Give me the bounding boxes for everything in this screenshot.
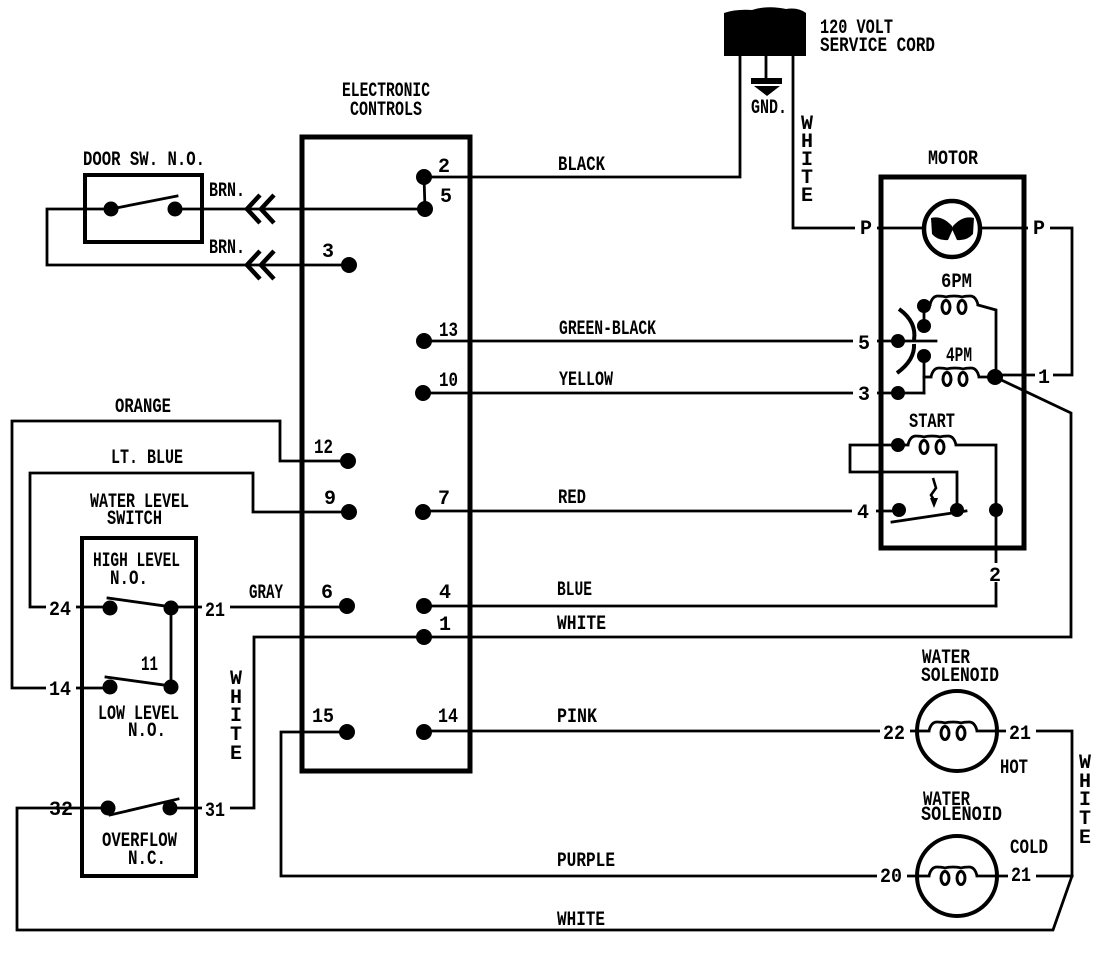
door switch blade: [111, 196, 177, 209]
cold solenoid coil: [918, 867, 996, 885]
label 1 (motor): [1035, 367, 1053, 390]
ground GND stem: [765, 56, 768, 80]
wire RED: pin 7 to motor 4: [423, 510, 899, 513]
label 21 (cold): [1008, 864, 1036, 888]
pin 5: [417, 201, 433, 217]
hot water solenoid circle: [917, 691, 997, 771]
motor pin 5 contact: [891, 334, 905, 348]
svg-text:E: E: [801, 185, 813, 208]
wire WHITE service: plug to motor P: [793, 56, 881, 228]
label WATER SOLENOID hot: [921, 647, 999, 688]
wire BLACK: controls pin 2 to plug: [424, 56, 740, 177]
svg-text:N.C.: N.C.: [128, 848, 166, 871]
svg-text:N.O.: N.O.: [110, 568, 148, 591]
wire BRN. lower: door switch to pin 3: [47, 209, 349, 265]
pin 2: [416, 169, 432, 185]
svg-text:5: 5: [858, 333, 870, 356]
label WHITE (service cord, vertical): [801, 113, 813, 208]
wire A-B link: [923, 306, 926, 326]
door switch contact right: [168, 202, 183, 217]
overflow contact right (31): [163, 801, 178, 816]
connector chevrons upper: [247, 195, 274, 223]
label 14 (water level): [46, 679, 76, 702]
label 20: [877, 865, 907, 889]
water level switch box: [82, 538, 196, 876]
electronic controls box: [302, 137, 470, 771]
label WHITE vertical left: [230, 668, 242, 766]
pin 15: [339, 724, 355, 740]
label 3 (motor): [853, 384, 877, 407]
motor protector circle: [924, 201, 980, 257]
svg-text:P: P: [860, 218, 872, 241]
label 4 (motor): [852, 501, 876, 525]
label 5 (motor): [853, 332, 877, 356]
pin 6: [339, 598, 355, 614]
label 24: [46, 599, 76, 622]
pin 9: [341, 504, 357, 520]
svg-text:9: 9: [324, 488, 336, 511]
svg-text:3: 3: [322, 241, 334, 264]
svg-text:14: 14: [438, 706, 458, 729]
wire YELLOW: pin 10 to motor 3: [423, 392, 924, 395]
svg-text:10: 10: [439, 370, 458, 393]
wire 6PM right side down: [978, 305, 996, 377]
label BRN. lower: [206, 237, 248, 260]
label OVERFLOW N.C.: [102, 830, 177, 871]
svg-text:GND.: GND.: [751, 97, 787, 120]
wire WHITE bottom: overflow 32 to cold solenoid 21: [17, 808, 1072, 930]
high level blade: [108, 598, 172, 607]
svg-text:6: 6: [321, 582, 333, 605]
svg-text:BLUE: BLUE: [557, 579, 592, 602]
low level contact right: [164, 680, 179, 695]
wire start coil right and down to 2: [956, 445, 996, 606]
pin 3: [341, 257, 357, 273]
wire WHITE: pin 1 left to overflow 31: [170, 637, 424, 808]
label 21 (water level): [202, 600, 230, 623]
svg-text:E: E: [230, 743, 242, 766]
centrifugal contact C: [917, 349, 931, 363]
svg-text:CONTROLS: CONTROLS: [350, 99, 422, 122]
label LOW LEVEL N.O.: [98, 703, 179, 743]
motor pin 3 contact: [891, 386, 905, 400]
svg-text:BRN.: BRN.: [209, 180, 245, 203]
start switch blade: [892, 511, 966, 522]
wire start loop to switch: [850, 445, 957, 510]
wire 6PM entry: [924, 305, 930, 306]
svg-text:1: 1: [1038, 367, 1050, 390]
pin 13: [416, 333, 432, 349]
motor protector bowtie: [931, 217, 974, 240]
pin 4: [416, 598, 432, 614]
svg-text:11: 11: [141, 654, 158, 677]
svg-text:14: 14: [49, 679, 71, 702]
svg-text:31: 31: [205, 800, 225, 823]
wire PURPLE: pin 15 to cold solenoid 20: [281, 732, 918, 876]
label P left: [855, 218, 877, 241]
svg-text:SOLENOID: SOLENOID: [921, 665, 999, 688]
120V service cord plug: [724, 7, 806, 56]
start switch contact left (4): [892, 503, 906, 517]
svg-text:2: 2: [438, 156, 450, 179]
svg-text:3: 3: [858, 384, 870, 407]
label WHITE vertical right: [1079, 752, 1091, 850]
svg-text:1: 1: [439, 614, 451, 637]
pin 14: [416, 724, 432, 740]
svg-text:4: 4: [439, 582, 451, 605]
svg-text:21: 21: [205, 600, 225, 623]
wire WHITE: pin 1 right to motor junction 1: [424, 377, 1071, 637]
start winding contact: [891, 438, 905, 452]
wire P internal right: [980, 227, 1024, 230]
svg-text:GREEN-BLACK: GREEN-BLACK: [559, 318, 656, 341]
svg-text:MOTOR: MOTOR: [928, 148, 978, 171]
svg-text:21: 21: [1011, 865, 1031, 888]
start winding coil: [908, 436, 956, 454]
pin 12: [340, 453, 356, 469]
connector chevrons lower: [247, 251, 274, 279]
wire LT. BLUE: pin 9 to water level switch 24: [30, 473, 349, 607]
svg-text:YELLOW: YELLOW: [559, 369, 613, 392]
svg-text:SERVICE CORD: SERVICE CORD: [820, 35, 935, 58]
svg-text:20: 20: [880, 866, 902, 889]
label WATER LEVEL SWITCH: [90, 491, 189, 531]
centrifugal switch arcs: [897, 309, 914, 373]
junction node 2: [989, 503, 1003, 517]
centrifugal contact A: [917, 299, 931, 313]
svg-text:SOLENOID: SOLENOID: [921, 804, 1002, 827]
start switch actuator arrow: [930, 478, 938, 508]
pin 7: [415, 504, 431, 520]
wire 4PM branch: [924, 376, 931, 379]
door switch contact left: [104, 202, 119, 217]
svg-text:22: 22: [883, 723, 905, 746]
high level contact right (21): [164, 601, 179, 616]
svg-text:BLACK: BLACK: [558, 154, 605, 177]
centrifugal contact B: [917, 319, 931, 333]
svg-text:PURPLE: PURPLE: [557, 850, 615, 873]
svg-text:LT. BLUE: LT. BLUE: [111, 447, 183, 470]
overflow contact left (32): [101, 801, 116, 816]
start switch contact right: [950, 503, 964, 517]
svg-text:2: 2: [989, 565, 1001, 588]
junction node 1: [987, 369, 1003, 385]
wire GRAY: water level 21 to pin 6: [171, 606, 347, 609]
low level blade: [106, 677, 171, 686]
svg-text:START: START: [909, 411, 955, 434]
wire high-low link (11): [170, 608, 173, 687]
svg-text:21: 21: [1009, 723, 1031, 746]
svg-text:P: P: [1033, 218, 1045, 241]
label 31: [202, 800, 230, 823]
wire C down to pin3 line: [923, 356, 926, 393]
svg-text:6PM: 6PM: [941, 271, 972, 294]
svg-text:DOOR SW. N.O.: DOOR SW. N.O.: [83, 149, 205, 172]
svg-text:12: 12: [314, 437, 333, 460]
label BRN. upper: [206, 180, 248, 203]
ground symbol: [751, 78, 782, 96]
svg-text:GRAY: GRAY: [249, 582, 283, 605]
wire start coil entry: [898, 444, 908, 447]
high level contact left (24): [103, 601, 118, 616]
wire P right: motor to junction 1: [995, 228, 1072, 375]
svg-text:RED: RED: [558, 487, 586, 510]
svg-text:WHITE: WHITE: [557, 613, 606, 636]
svg-text:32: 32: [49, 799, 73, 822]
wire ORANGE: pin 12 to water level switch 14: [12, 421, 348, 688]
motor main winding 6PM coil: [930, 296, 978, 314]
label 21 (hot): [1006, 722, 1036, 746]
svg-text:WHITE: WHITE: [557, 909, 605, 932]
wire PINK: pin 14 to hot solenoid 22: [424, 730, 918, 733]
label 120 VOLT SERVICE CORD: [820, 17, 935, 58]
svg-text:4: 4: [857, 502, 869, 525]
pin 10: [415, 385, 431, 401]
svg-text:24: 24: [49, 599, 71, 622]
svg-text:ORANGE: ORANGE: [115, 396, 171, 419]
svg-text:BRN.: BRN.: [209, 237, 245, 260]
motor box: [881, 177, 1024, 548]
svg-text:HOT: HOT: [1000, 757, 1028, 780]
label HIGH LEVEL N.O.: [93, 550, 180, 591]
overflow blade: [110, 799, 178, 815]
wire P internal left: [881, 227, 924, 230]
wire BRN. upper: door switch to pin 5: [175, 208, 425, 211]
wire pin2-pin5 link: [424, 177, 425, 209]
svg-text:N.O.: N.O.: [128, 720, 166, 743]
label 2 (motor): [986, 563, 1004, 588]
motor aux winding 4PM coil: [931, 368, 979, 386]
svg-text:E: E: [1079, 827, 1091, 850]
wire GREEN-BLACK: pin 13 to motor 5 pole: [424, 340, 936, 343]
wire 4PM right to junction: [979, 376, 995, 379]
cold water solenoid circle: [917, 836, 997, 916]
svg-text:15: 15: [312, 706, 334, 729]
hot solenoid coil: [918, 722, 996, 740]
wire cold 21 to right: [996, 875, 1072, 878]
low level contact left (14): [103, 680, 118, 695]
label WATER SOLENOID cold: [921, 789, 1002, 827]
label ELECTRONIC CONTROLS: [342, 80, 430, 122]
svg-text:SWITCH: SWITCH: [107, 508, 162, 531]
wire BLUE: pin 4 to motor 2: [424, 605, 996, 608]
wire hot 21 to right: [996, 731, 1072, 876]
svg-text:5: 5: [440, 186, 452, 209]
door switch S1 box: [85, 175, 202, 242]
svg-text:PINK: PINK: [557, 706, 597, 729]
svg-text:COLD: COLD: [1010, 837, 1048, 860]
pin 1: [416, 629, 432, 645]
label P right: [1028, 218, 1050, 241]
label 22: [880, 722, 910, 746]
svg-text:4PM: 4PM: [946, 345, 972, 368]
label 32: [46, 799, 78, 822]
svg-text:13: 13: [439, 320, 458, 343]
svg-text:7: 7: [438, 488, 450, 511]
